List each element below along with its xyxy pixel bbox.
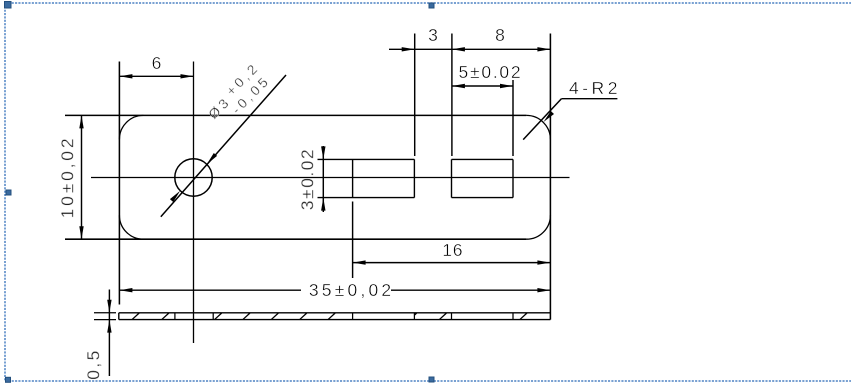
4-R2 leader diagonal (523, 99, 561, 140)
4-R2 text (569, 80, 621, 98)
fillet top-right R2 (526, 115, 550, 139)
plate bottom edge (65, 238, 526, 240)
dim 10±0,02 line (81, 115, 83, 239)
side view strip top edge (119, 312, 551, 314)
dim 35±0,02 arrows (119, 288, 132, 292)
slot 1 top edge with left extension (318, 158, 415, 160)
dim 6 text (152, 55, 162, 73)
dim 16 text (442, 242, 463, 260)
strip thickness extension ticks (94, 312, 116, 314)
hole circle dia 3 (175, 159, 212, 196)
fillet bottom-left R2 (119, 215, 143, 239)
dim 3 text (428, 27, 438, 45)
dim 5&#177;0.02 text (459, 64, 523, 82)
dim 0,5 line (108, 290, 110, 377)
slot 1 bottom edge with left extension (318, 197, 415, 199)
dim 5±0.02 line (452, 85, 513, 87)
dim 3/8 line (389, 48, 550, 50)
selection handle top-middle (429, 3, 434, 8)
dim 10&#177;0,02 text (59, 136, 77, 219)
strip slot1 left edge (352, 313, 354, 320)
fillet bottom-right R2 (526, 215, 550, 239)
dim 0,5 text (86, 348, 104, 380)
hole dia leader line (161, 75, 286, 217)
strip hole left edge (174, 313, 176, 320)
horizontal centerline (91, 177, 570, 179)
hole dia text block (213, 119, 215, 121)
dim 35±0,02 line left part (119, 289, 301, 291)
dim 3&#177;0.02 text (299, 147, 317, 209)
extension line slot2 right up (512, 80, 514, 156)
dim 16 line (353, 262, 551, 264)
selection handle top-left (5, 2, 12, 9)
plate right edge (549, 34, 551, 320)
dim 5±0.02 arrows (452, 84, 465, 88)
dim 10±0,02 arrows (79, 115, 83, 128)
slot 2 right edge (512, 159, 514, 197)
dim 6 arrows (119, 74, 132, 78)
fillet top-left R2 (119, 115, 143, 139)
selection dashed border top (5, 2, 851, 4)
dim 3±0.02 line (322, 146, 324, 212)
strip slot1 right edge (413, 313, 415, 320)
dim 3 outside arrows (402, 47, 415, 51)
dim 35±0,02 line right part (391, 289, 550, 291)
dim 3±0.02 outside arrows (321, 146, 325, 159)
selection dashed border bottom (5, 380, 851, 382)
dim 35&#177;0,02 text (309, 282, 395, 300)
4-R2 leader horizontal (561, 98, 617, 100)
extension line slot1 left down (352, 202, 354, 279)
dim 6 line (119, 75, 193, 77)
selection handle left-middle (6, 190, 11, 195)
plate left edge (118, 62, 120, 305)
strip hole right edge (212, 313, 214, 320)
selection dashed border left (4, 3, 6, 381)
dim 0,5 outside arrows (107, 300, 111, 313)
slot 1 right edge (413, 159, 415, 197)
dim 16 arrows (353, 260, 366, 264)
slot 2 top edge (452, 158, 514, 160)
selection handle bottom-middle (429, 377, 434, 382)
strip slot2 right edge (512, 313, 514, 320)
dim 8 right arrow (537, 47, 550, 51)
extension line slot2 left up (451, 34, 453, 157)
plate top edge (65, 114, 526, 116)
side view strip left edge (118, 313, 120, 320)
hole dia leader arrows (207, 153, 217, 164)
4-R2 arrow (544, 111, 555, 122)
vertical centerline through hole (193, 62, 195, 344)
dim 8 text (495, 27, 505, 45)
slot 2 left edge (451, 159, 453, 197)
slot 1 left edge (352, 159, 354, 197)
section hatching (132, 313, 527, 319)
strip slot2 left edge (451, 313, 453, 320)
extension line slot1 right up (414, 34, 416, 157)
side view strip bottom edge (119, 319, 551, 321)
slot 2 bottom edge (452, 197, 514, 199)
selection handle bottom-left (6, 377, 11, 382)
